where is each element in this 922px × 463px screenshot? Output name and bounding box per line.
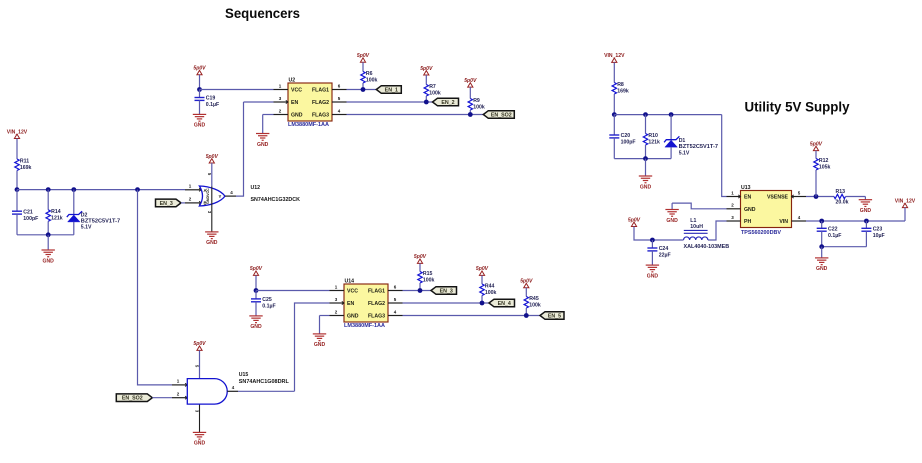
ground (C25)	[249, 315, 262, 317]
svg-text:105k: 105k	[819, 164, 831, 170]
svg-text:PH: PH	[744, 219, 751, 225]
node junction GND rail right	[643, 156, 648, 161]
svg-text:R11: R11	[20, 158, 29, 164]
wire FLAG1	[347, 89, 377, 91]
capacitor C25 0.1uF	[255, 291, 257, 299]
svg-text:10uH: 10uH	[690, 224, 703, 230]
svg-text:Y: Y	[219, 194, 222, 199]
svg-text:22µF: 22µF	[659, 253, 671, 259]
wire top-right bus	[614, 114, 721, 116]
node junction R12/VSENSE	[814, 194, 819, 199]
svg-text:GND: GND	[314, 342, 326, 348]
ground (U12)	[205, 231, 218, 233]
resistor R8 169k	[613, 62, 615, 82]
pin 4 FLAG3	[332, 114, 347, 116]
svg-text:5p0V: 5p0V	[193, 66, 206, 72]
svg-text:U13: U13	[741, 185, 751, 191]
svg-text:LM3880MF-1AA: LM3880MF-1AA	[288, 122, 329, 128]
diode D1 BZT52C5V1T-7 5.1V	[670, 115, 672, 140]
svg-text:R44: R44	[485, 283, 495, 289]
node junction R9/FLAG3	[468, 112, 473, 117]
svg-text:5.1V: 5.1V	[679, 150, 690, 156]
pin 1 VCC	[274, 89, 289, 91]
svg-text:5p0V: 5p0V	[476, 266, 489, 272]
svg-text:R9: R9	[473, 98, 480, 104]
wire U13 PH to L1	[708, 221, 727, 240]
wire FLAG3 U14	[403, 315, 541, 317]
svg-text:R15: R15	[423, 271, 433, 277]
svg-text:GND: GND	[43, 258, 55, 264]
svg-text:GND: GND	[744, 207, 756, 213]
capacitor C21 100pF	[16, 190, 18, 212]
svg-text:169k: 169k	[20, 165, 32, 171]
node junction C24	[650, 238, 655, 243]
svg-text:5p0V: 5p0V	[520, 279, 533, 285]
svg-text:Sequencers: Sequencers	[225, 6, 300, 21]
svg-text:R12: R12	[819, 158, 829, 164]
svg-text:A: A	[204, 188, 207, 193]
svg-text:R8: R8	[617, 82, 624, 88]
node junction R15	[418, 288, 423, 293]
svg-text:EN_3: EN_3	[160, 201, 173, 207]
net label EN_SO2 (AND input)	[116, 394, 152, 402]
svg-text:5p0V: 5p0V	[810, 141, 823, 147]
resistor R12 105k	[815, 151, 817, 159]
power 5p0V (R12)	[813, 146, 818, 150]
svg-text:EN_4: EN_4	[498, 301, 511, 307]
ground (R13)	[859, 199, 872, 201]
op-amp U13 TPS560200DBV body	[741, 191, 792, 228]
wire AND input 1 stub	[172, 384, 187, 386]
svg-text:D1: D1	[679, 138, 686, 144]
net label EN_2	[433, 98, 459, 106]
svg-text:100k: 100k	[485, 290, 497, 296]
wire AND power pin 5 / gnd pin 3	[199, 350, 201, 378]
svg-text:EN: EN	[744, 194, 751, 200]
wire U14 EN from AND gate	[295, 303, 330, 391]
node junction R6/FLAG1	[361, 87, 366, 92]
power VIN_12V (right top)	[612, 58, 617, 62]
node junction R44	[480, 301, 485, 306]
svg-text:0.1µF: 0.1µF	[828, 233, 841, 239]
wire FLAG2	[347, 101, 433, 103]
power VIN_12V (right)	[902, 203, 907, 207]
resistor R45 100k	[525, 288, 527, 297]
svg-text:0.1µF: 0.1µF	[206, 102, 219, 108]
ground (U15)	[193, 431, 206, 433]
wire	[199, 75, 201, 90]
node junction C19/VCC	[197, 87, 202, 92]
ground (C22/C23)	[815, 257, 828, 259]
power 5p0V (U15)	[197, 346, 202, 350]
svg-text:TPS560200DBV: TPS560200DBV	[741, 230, 782, 236]
pin 3 EN U14	[330, 302, 345, 304]
resistor R15 100k	[419, 263, 421, 271]
power 5p0V (output)	[631, 222, 636, 226]
net label EN_3 (U14)	[431, 287, 457, 295]
wire EN_3 to OR input B	[181, 202, 185, 204]
svg-text:5.1V: 5.1V	[81, 225, 92, 231]
svg-text:R13: R13	[836, 189, 846, 195]
node junction AND branch	[135, 187, 140, 192]
power 5p0V (R7)	[424, 71, 429, 75]
wire main bus	[17, 189, 185, 191]
svg-text:FLAG2: FLAG2	[368, 301, 385, 307]
wire bus to OR input A	[185, 189, 201, 191]
svg-text:100pF: 100pF	[621, 140, 636, 146]
power 5p0V (R45)	[524, 283, 529, 287]
svg-text:20.0k: 20.0k	[836, 200, 849, 206]
pin 1 EN U13	[727, 196, 741, 198]
resistor R14 121k	[47, 190, 49, 210]
or-gate U12 body	[199, 186, 225, 206]
svg-text:EN_5: EN_5	[548, 314, 561, 320]
svg-text:121k: 121k	[51, 216, 63, 222]
wire R13 to GND	[846, 196, 866, 198]
svg-text:VCC: VCC	[291, 87, 302, 93]
svg-text:5p0V: 5p0V	[206, 154, 219, 160]
svg-text:BZT52C5V1T-7: BZT52C5V1T-7	[679, 144, 718, 150]
power 5p0V (R6)	[360, 58, 365, 62]
svg-text:5p0V: 5p0V	[193, 341, 206, 347]
svg-text:GND: GND	[666, 218, 678, 224]
wire U2 GND	[263, 114, 274, 116]
svg-text:R14: R14	[51, 209, 61, 215]
pin 1 VCC U14	[330, 290, 345, 292]
svg-text:GND: GND	[347, 313, 359, 319]
resistor R9 100k	[469, 87, 471, 98]
svg-text:VIN_12V: VIN_12V	[895, 198, 916, 204]
wire VSENSE	[806, 196, 834, 198]
ground (U14)	[313, 333, 326, 335]
pin 2 GND U14	[330, 315, 345, 317]
svg-text:GND: GND	[860, 208, 872, 214]
svg-text:5p0V: 5p0V	[250, 266, 263, 272]
svg-text:EN: EN	[347, 301, 354, 307]
svg-text:FLAG1: FLAG1	[368, 288, 385, 294]
resistor R6 100k	[362, 62, 364, 71]
net label EN_5	[540, 312, 564, 320]
wire FLAG2 U14	[403, 302, 490, 304]
svg-text:SN74AHC1G08DRL: SN74AHC1G08DRL	[239, 379, 290, 385]
svg-text:C21: C21	[23, 209, 33, 215]
svg-text:SN74AHC1G32DCK: SN74AHC1G32DCK	[251, 197, 301, 203]
svg-text:169k: 169k	[617, 88, 629, 94]
node junction C23	[864, 219, 869, 224]
capacitor C22 0.1uF	[821, 221, 823, 228]
ground (C24)	[646, 264, 659, 266]
power 5p0V (R9)	[468, 83, 473, 87]
power 5p0V (C19)	[197, 70, 202, 74]
svg-text:C23: C23	[873, 226, 883, 232]
svg-text:100k: 100k	[429, 90, 441, 96]
resistor R13 20.0k	[834, 194, 846, 198]
svg-text:5p0V: 5p0V	[414, 254, 427, 260]
wire U14 GND	[320, 315, 330, 317]
svg-text:VSENSE: VSENSE	[767, 194, 789, 200]
wire bus to AND input 1	[138, 190, 173, 385]
wire cap gnd rail	[822, 246, 867, 248]
node junction bus right	[612, 112, 617, 117]
node junction D2 top	[71, 187, 76, 192]
ground (left cluster)	[42, 249, 55, 251]
svg-text:U12: U12	[251, 185, 261, 191]
wire U2 EN from OR gate	[244, 101, 274, 103]
svg-text:FLAG2: FLAG2	[312, 100, 329, 106]
pin 6 FLAG1	[332, 89, 347, 91]
capacitor C24 22uF	[651, 240, 653, 248]
node junction R45	[524, 313, 529, 318]
node junction GND rail	[46, 232, 51, 237]
power 5p0V (R15)	[417, 259, 422, 263]
svg-text:C22: C22	[828, 226, 838, 232]
pin 5 VSENSE U13	[792, 196, 807, 198]
svg-text:5p0V: 5p0V	[464, 78, 477, 84]
svg-text:C20: C20	[621, 133, 631, 139]
wire OR output to U2 EN	[225, 195, 236, 197]
svg-text:VIN_12V: VIN_12V	[7, 129, 28, 135]
node junction C22	[819, 219, 824, 224]
net label EN_1	[376, 86, 401, 94]
node junction R14 top	[46, 187, 51, 192]
capacitor C20 100pF	[613, 115, 615, 135]
wire bottom rail	[17, 234, 74, 236]
svg-text:R45: R45	[529, 296, 539, 302]
svg-text:FLAG1: FLAG1	[312, 87, 329, 93]
svg-text:0.1µF: 0.1µF	[262, 304, 275, 310]
node junction bus left	[15, 187, 20, 192]
svg-text:FLAG3: FLAG3	[368, 313, 385, 319]
power 5p0V (U12)	[209, 159, 214, 163]
svg-text:100k: 100k	[529, 302, 541, 308]
svg-text:10µF: 10µF	[873, 233, 885, 239]
svg-text:R10: R10	[648, 133, 658, 139]
svg-text:Utility 5V Supply: Utility 5V Supply	[745, 99, 850, 114]
svg-text:FLAG3: FLAG3	[312, 112, 329, 118]
svg-text:GND: GND	[257, 142, 269, 148]
op-amp U14 LM3880MF-1AA body	[344, 284, 388, 322]
wire AND output to U14 EN	[227, 390, 238, 392]
svg-text:LM3880MF-1AA: LM3880MF-1AA	[344, 323, 385, 329]
capacitor C19 0.1uF	[199, 90, 201, 98]
ground (U2)	[256, 133, 269, 135]
svg-text:EN_1: EN_1	[385, 88, 398, 94]
op-amp U2 LM3880MF-1AA body	[288, 83, 332, 121]
resistor R44 100k	[481, 275, 483, 284]
pin 4 FLAG3 U14	[388, 315, 403, 317]
svg-text:EN_2: EN_2	[441, 100, 454, 106]
power 5p0V (C25)	[253, 271, 258, 275]
pin 5 FLAG2	[332, 101, 347, 103]
inductor L1 10uH XAL4040-103MEB	[684, 229, 708, 231]
wire FLAG3	[347, 114, 484, 116]
wire bottom rail right	[614, 158, 671, 160]
svg-text:EN_SO2: EN_SO2	[491, 113, 512, 119]
net label EN_3 (OR input)	[156, 199, 182, 207]
and-gate U15 body	[187, 379, 227, 405]
diode D2 BZT52C5V1T-7 5.1V	[73, 190, 75, 215]
wire 5p0V to L1	[634, 227, 684, 241]
svg-text:5p0V: 5p0V	[628, 217, 641, 223]
power 5p0V (R44)	[479, 271, 484, 275]
pin 4 VIN U13	[792, 220, 807, 222]
node junction R10 top	[643, 112, 648, 117]
node junction C25	[254, 288, 259, 293]
wire EN_SO2 to AND input 2	[152, 397, 172, 399]
wire U13 GND	[672, 203, 726, 209]
wire VIN	[806, 220, 905, 222]
svg-text:XAL4040-103MEB: XAL4040-103MEB	[684, 244, 730, 250]
svg-text:100k: 100k	[473, 104, 485, 110]
svg-text:D2: D2	[81, 213, 88, 219]
svg-text:L1: L1	[690, 218, 696, 224]
svg-text:100pF: 100pF	[23, 216, 38, 222]
node junction C22 gnd	[819, 244, 824, 249]
wire bus down to U13 EN	[722, 115, 727, 197]
svg-text:VCC: VCC	[347, 288, 358, 294]
resistor R10 121k	[645, 115, 647, 134]
wire C25/VCC	[255, 275, 257, 290]
svg-text:C19: C19	[206, 96, 216, 102]
node junction D1 top	[669, 112, 674, 117]
svg-text:GND: GND	[194, 441, 206, 447]
svg-text:GND: GND	[640, 184, 652, 190]
svg-text:GND: GND	[647, 273, 659, 279]
svg-text:GND: GND	[291, 112, 303, 118]
svg-text:121k: 121k	[648, 139, 660, 145]
svg-text:5p0V: 5p0V	[357, 53, 370, 59]
svg-text:U14: U14	[345, 278, 355, 284]
wire VCC U2	[200, 89, 274, 91]
net label EN_4	[489, 299, 515, 307]
svg-text:R6: R6	[366, 71, 373, 77]
svg-text:C25: C25	[262, 297, 272, 303]
svg-text:U15: U15	[239, 372, 249, 378]
svg-text:100k: 100k	[423, 277, 435, 283]
svg-text:C24: C24	[659, 246, 669, 252]
resistor R11 169k	[16, 139, 18, 160]
node junction R7/FLAG2	[424, 100, 429, 105]
pin 5 FLAG2 U14	[388, 302, 403, 304]
net label EN_SO2	[483, 111, 514, 119]
ground (C20 cluster)	[639, 175, 652, 177]
svg-text:U2: U2	[289, 77, 296, 83]
svg-text:GND: GND	[816, 266, 828, 272]
svg-text:R7: R7	[429, 84, 436, 90]
svg-text:EN: EN	[291, 100, 298, 106]
wire OR power pin 5 / gnd pin 3	[211, 163, 213, 187]
power VIN_12V (left)	[14, 134, 19, 138]
pin 3 EN	[274, 101, 289, 103]
wire to VIN_12V	[904, 208, 906, 221]
svg-text:GND: GND	[250, 324, 262, 330]
svg-text:VIN_12V: VIN_12V	[604, 53, 625, 59]
ground (C19)	[193, 113, 206, 115]
svg-text:100k: 100k	[366, 77, 378, 83]
svg-text:VIN: VIN	[779, 219, 788, 225]
resistor R7 100k	[425, 75, 427, 85]
ground (U13)	[665, 209, 678, 211]
svg-text:EN_SO2: EN_SO2	[122, 396, 143, 402]
svg-text:GND: GND	[194, 123, 206, 129]
svg-text:GND: GND	[206, 240, 218, 246]
svg-text:EN_3: EN_3	[440, 289, 453, 295]
capacitor C23 10uF	[865, 221, 867, 228]
pin 2 GND	[274, 114, 289, 116]
svg-text:5p0V: 5p0V	[420, 66, 433, 72]
pin 3 PH U13	[727, 220, 741, 222]
wire FLAG1 U14	[403, 290, 432, 292]
pin 2 GND U13	[727, 208, 741, 210]
svg-text:B: B	[204, 201, 207, 206]
pin 6 FLAG1 U14	[388, 290, 403, 292]
